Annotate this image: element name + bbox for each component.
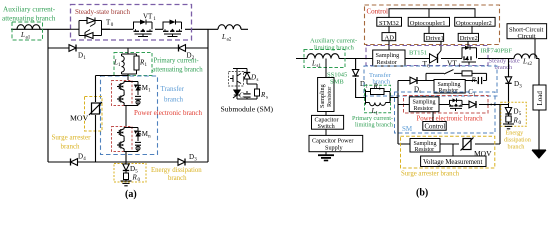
box Drive2 [458,33,478,41]
SM1 right leg with diode, capacitor, circle [124,82,138,106]
svg-text:Primary current-: Primary current- [154,58,200,65]
wire: bottom surge branch [398,105,509,145]
diode D5 (b) [508,105,510,108]
svg-text:attenuating branch: attenuating branch [2,15,56,23]
FIGURE A [2,5,273,201]
box Sampling Resistor (main wire) [373,50,405,66]
SMn right leg with diode, capacitor, circle [124,128,138,152]
label SM1 with arrow [134,85,138,89]
energy dissipation branch box b (yellow dotted) [501,102,527,126]
box Sampling Resistor (vertical) [318,78,334,112]
control box (brown dashed) [365,5,500,45]
MOV varistor [89,102,102,115]
svg-text:dissipation: dissipation [504,137,531,144]
svg-text:Capacitor Power: Capacitor Power [312,137,353,144]
wire: STM32 to AD [389,26,472,33]
wire: short-circuit circuit to main wire [534,39,536,59]
wire: top main wire [11,28,70,30]
diode D3 (b) [505,77,511,84]
resistor R1 (b) [366,90,399,105]
box Short-Circuit Circuit [507,24,547,39]
svg-text:Optocoupler2: Optocoupler2 [456,20,492,27]
svg-text:Resistor: Resistor [415,147,435,153]
primary current-limiting branch box b (green dashed) [365,85,391,112]
svg-text:branch: branch [168,175,187,182]
svg-text:(b): (b) [416,188,428,199]
wire: SMn down to bottom wire [125,152,127,163]
box Voltage Measurement [421,156,486,167]
SMn transistor bottom [117,140,124,150]
SM1 transistor bottom [117,94,124,104]
transistor VT_1a [134,20,153,37]
inductor L_a2 [218,25,241,30]
svg-text:L: L [522,58,527,66]
svg-text:Resistor: Resistor [326,87,333,107]
wire: SM chain [398,104,485,106]
svg-text:Auxiliary current-: Auxiliary current- [3,6,56,14]
inductor Ls2 [514,54,537,59]
wire: stem from D1-D2 wire into L1/R1 block [122,48,137,80]
submodule SM detail drawing [233,69,257,100]
svg-text:(a): (a) [125,189,137,200]
power electronic branch box b (red dashed) [404,96,489,114]
SM detail: diode Ds [244,73,250,80]
svg-text:SMB: SMB [330,79,344,86]
wire: load branch [538,59,540,151]
box Capacitor Power Supply [309,135,363,151]
svg-text:Load: Load [536,91,544,106]
svg-text:Surge arrester branch: Surge arrester branch [401,171,460,178]
svg-text:Steady-state branch: Steady-state branch [75,8,131,16]
wire: sampling resistor vertical drop [325,59,327,78]
svg-text:branch: branch [61,143,81,151]
SM1 transistor top [117,82,124,92]
svg-text:Auxiliary current-: Auxiliary current- [310,38,357,45]
svg-text:D: D [250,74,256,82]
SMn column joins [123,127,125,151]
svg-text:Sampling: Sampling [438,82,461,88]
svg-text:Sampling: Sampling [376,52,400,59]
svg-text:Drive1: Drive1 [426,35,444,42]
svg-text:BT151: BT151 [409,50,427,57]
svg-text:Sampling: Sampling [413,100,436,106]
wire: MOV branch [96,76,129,163]
resistor R1 [134,56,139,70]
svg-text:Optocoupler1: Optocoupler1 [410,20,446,27]
SM detail: capacitor C [243,94,250,97]
label SMn with arrow [134,131,138,135]
surge arrester branch box b (yellow dashed) [401,136,495,168]
box Drive1 [424,33,443,41]
box Sampling Resistor (SM) [409,97,439,112]
wire: AD down to sampling resistor, Drive1 to T0 gate, Drive2 to VT1 [389,41,468,51]
box AD [382,33,396,41]
svg-text:SM: SM [138,130,149,138]
ground under R0 (b) [508,122,510,124]
svg-text:Voltage Measurement: Voltage Measurement [423,159,482,166]
svg-text:s: s [257,78,259,83]
transistor VT1 with body diode [462,46,477,65]
svg-text:a2: a2 [227,38,232,43]
svg-text:limiting branch: limiting branch [355,122,394,129]
ground [125,180,127,182]
wire: control top bus [389,9,475,18]
svg-text:branch: branch [508,144,526,151]
diode D4 [71,159,78,166]
diode D1 [69,45,76,52]
SM detail: resistor Rs [255,89,260,96]
transfer branch box (blue dashed) [101,76,158,155]
inductor L1 (vertical) [122,56,125,72]
box Capacitor Switch [312,115,344,129]
IGBT in SM [448,98,463,111]
diode Ds (b) [410,77,417,84]
SM detail: IGBT with dashed box [229,72,244,87]
svg-text:IRF740PBF: IRF740PBF [481,48,513,55]
SM detail: thyristor bottom left [233,90,240,98]
box Sampling Resistor (bottom) [410,139,440,153]
inductor L1 (b) [370,103,386,106]
svg-text:s: s [266,96,268,101]
svg-text:branch: branch [164,95,184,103]
svg-text:Sampling: Sampling [414,141,437,147]
svg-text:Sampling: Sampling [319,84,326,108]
box STM32 [377,17,402,26]
svg-text:Circuit: Circuit [518,33,536,40]
submodule SM1: power electronic box (red dashed) [112,81,133,106]
svg-text:Control: Control [425,124,446,131]
ground under capacitor power supply [325,152,327,155]
svg-text:Drive2: Drive2 [460,35,478,42]
svg-text:s1: s1 [317,64,322,69]
energy dissipation branch box (yellow dotted) [114,164,146,183]
steady-state branch box (purple dashed) [71,5,192,41]
svg-text:Control: Control [367,8,388,16]
ground under load [532,150,546,158]
SMn transistor top [117,128,124,138]
svg-text:Switch: Switch [318,123,336,130]
resistor R0 (b) [508,115,510,117]
svg-text:Resistor: Resistor [414,106,434,112]
transfer branch box b (blue dashed) [364,66,497,96]
svg-text:SS1045: SS1045 [327,72,347,79]
svg-text:Supply: Supply [325,144,343,151]
wire: right vertical with D3 [508,59,510,105]
auxiliary current-limiting branch box (green dashed) [304,50,345,68]
surge arrester branch box (yellow dashed) [85,97,103,132]
capacitor C1 [478,77,481,84]
svg-text:VT: VT [143,13,153,21]
wire: D1-D2 middle wire [48,47,208,49]
wire: left vertical [47,29,49,162]
dots ellipsis [487,104,489,106]
box Control (SM) [423,122,446,131]
switch + Rs parallel path [426,70,487,81]
svg-text:L: L [311,60,316,68]
wire: to capacitor switch [325,112,327,116]
svg-text:AD: AD [385,34,395,41]
diode in SM [469,101,476,108]
svg-text:Energy: Energy [506,130,525,137]
svg-text:Submodule (SM): Submodule (SM) [221,104,274,113]
svg-text:L: L [221,33,226,41]
svg-text:limiting branch: limiting branch [314,45,355,52]
resistor Rs (b) [462,71,472,76]
svg-text:Power electronic branch: Power electronic branch [134,109,203,117]
primary current-attenuating branch box (green dashed) [114,53,152,76]
resistor R0 [125,171,127,173]
svg-text:STM32: STM32 [379,20,399,27]
diode D1 (b) [352,70,358,77]
submodule SMn: power electronic box (red dashed) [112,127,133,152]
wire: to voltage measurement [452,144,454,156]
wire: SM1 to SMn [125,106,127,128]
svg-text:L: L [20,31,25,39]
wire: to capacitor power supply [325,129,327,135]
diode D3 [178,159,185,166]
box Optocoupler2 [455,17,495,26]
svg-text:C: C [239,92,244,100]
wire: top wire inside/after steady-state to L_a2 [102,28,248,30]
wire: D1 drop [356,59,366,98]
svg-text:Transfer: Transfer [161,85,185,93]
diode D2 [179,45,186,52]
wire: control to IGBT [432,112,434,122]
MOV (b) [461,138,474,151]
box Optocoupler1 [408,17,449,26]
wire: bottom wire [48,161,208,163]
box Sampling Resistor (transfer) [434,80,465,94]
transistor VT_1b [163,20,182,37]
box Load [533,85,546,110]
svg-text:MOV: MOV [70,114,89,123]
svg-text:attenuating branch: attenuating branch [152,67,203,74]
steady-state branch box (purple dashed) [366,46,488,66]
FIGURE B [296,5,547,199]
diode D5 [125,162,127,164]
SM1 column joins [123,81,125,105]
svg-text:Resistor: Resistor [377,59,397,66]
wire: vertical at 399 [397,81,399,145]
auxiliary current-attenuating branch box (green dashed) [12,22,43,40]
wire: main wire b [296,58,539,60]
inductor Ls1 [307,54,339,59]
SM box (blue dashed) [395,92,496,133]
svg-text:s2: s2 [528,62,533,67]
svg-text:Energy dissipation: Energy dissipation [151,167,202,174]
svg-text:SM: SM [138,84,149,92]
svg-text:Resistor: Resistor [439,88,459,94]
svg-text:Surge arrester: Surge arrester [52,134,92,142]
wire: transfer chain Ds [398,73,487,80]
wire: right vertical [207,29,209,162]
svg-text:SM: SM [402,125,413,133]
thyristor T0 [430,51,442,64]
inductor L_a1 [17,25,40,30]
thyristor pair T_0 [70,18,110,39]
